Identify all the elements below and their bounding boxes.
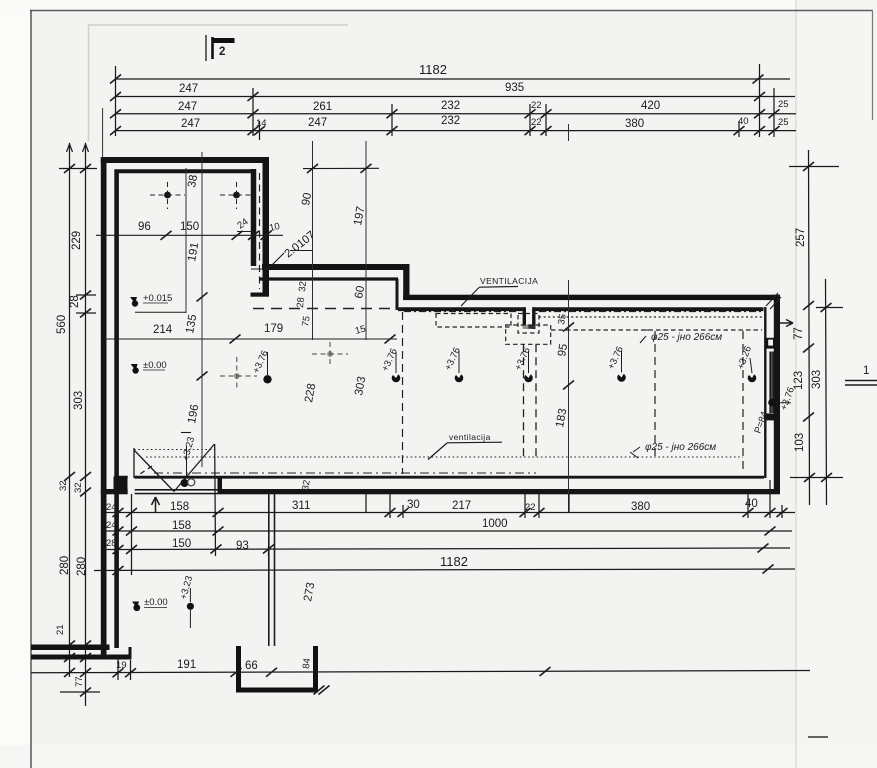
- level point 0.00 lower: [132, 597, 168, 611]
- scan fold line top-left: [88, 24, 90, 141]
- svg-text:21: 21: [55, 624, 66, 635]
- svg-text:217: 217: [452, 500, 471, 512]
- svg-text:93: 93: [236, 540, 249, 552]
- vent notch in top wall: [523, 307, 536, 329]
- dim row 247-14-247-232-22-380-40-25: [116, 130, 797, 132]
- svg-text:247: 247: [179, 83, 198, 95]
- chain verticals: [115, 66, 117, 136]
- lamps right room: [380, 347, 401, 382]
- page border top: [30, 10, 873, 12]
- row A ticks: [113, 508, 788, 517]
- svg-text:22: 22: [531, 117, 542, 128]
- dim 90 line at y168: [303, 167, 379, 169]
- stub at wall top: [59, 168, 97, 170]
- svg-text:232: 232: [441, 100, 460, 112]
- svg-text:84: 84: [301, 658, 313, 669]
- svg-text:560: 560: [56, 315, 68, 334]
- wall room A right centerline dashed: [259, 173, 261, 289]
- svg-text:1: 1: [863, 365, 869, 377]
- svg-text:303: 303: [811, 370, 823, 389]
- grey point x330: [312, 342, 348, 367]
- bottom wall outer: [101, 489, 780, 494]
- section mark 1 right edge: [845, 365, 877, 385]
- bottom chain labels: [106, 479, 758, 672]
- svg-text:35: 35: [556, 313, 569, 325]
- main top wall inner line: [398, 307, 523, 311]
- svg-text:90: 90: [300, 192, 314, 207]
- svg-text:40: 40: [738, 116, 749, 127]
- door pivot point: [181, 479, 189, 487]
- step wall horizontal outer: [262, 264, 410, 270]
- bottom-left return wall cap: [129, 647, 132, 658]
- interior grid vertical x186: [185, 168, 187, 313]
- svg-text:77: 77: [793, 327, 805, 340]
- threshold split white: [135, 491, 218, 493]
- step wall horizontal inner line: [259, 277, 398, 280]
- svg-text:+0.015: +0.015: [143, 293, 172, 304]
- svg-text:60: 60: [353, 285, 367, 300]
- tick on grid x202: [197, 293, 208, 381]
- svg-text:311: 311: [292, 500, 310, 512]
- svg-text:66: 66: [245, 660, 258, 672]
- svg-text:32: 32: [300, 479, 313, 491]
- door opening dashed line below room A wall: [253, 308, 402, 310]
- dashed vertical x655: [654, 331, 656, 460]
- wall left inner line upper: [114, 170, 119, 478]
- svg-text:VENTILACIJA: VENTILACIJA: [480, 276, 538, 286]
- BOTTOM DIMENSION CHAINS: [31, 444, 810, 680]
- svg-text:28: 28: [106, 538, 117, 549]
- svg-text:247: 247: [178, 101, 197, 113]
- svg-text:10: 10: [268, 221, 281, 234]
- svg-text:96: 96: [138, 221, 151, 233]
- svg-text:123: 123: [793, 371, 805, 390]
- row A: [103, 512, 795, 514]
- svg-text:280: 280: [59, 556, 71, 575]
- step wall vertical outer: [403, 264, 409, 300]
- section mark 2: [206, 35, 235, 61]
- svg-text:77: 77: [74, 676, 85, 687]
- window in right wall: [767, 338, 779, 421]
- svg-text:95: 95: [556, 343, 570, 358]
- right wall outer upper: [774, 295, 780, 494]
- dim row 935: [116, 96, 796, 98]
- bottom-left return wall upper bar: [31, 645, 110, 651]
- lamp room A right: [220, 182, 253, 209]
- row B: [103, 530, 792, 532]
- svg-text:380: 380: [625, 118, 644, 130]
- svg-text:25: 25: [778, 117, 789, 128]
- svg-text:280: 280: [76, 557, 88, 576]
- long bottom row: [31, 671, 810, 673]
- chain line inner: [85, 143, 87, 706]
- svg-text:±0.00: ±0.00: [143, 360, 167, 371]
- svg-text:32: 32: [297, 281, 309, 292]
- svg-text:14: 14: [256, 118, 267, 129]
- scan paper edge horizontal top-left: [88, 24, 348, 26]
- level point +3.23 lower: [178, 575, 195, 628]
- dashdot line y473: [154, 472, 536, 474]
- interior grid vertical x202: [201, 152, 203, 467]
- right chain ticks: [803, 162, 832, 482]
- chain line outer: [69, 143, 71, 677]
- svg-text:261: 261: [313, 101, 332, 113]
- level point +0.00 main room: [131, 360, 167, 374]
- svg-text:247: 247: [181, 118, 200, 130]
- door swing triangles bottom-left: [134, 444, 215, 492]
- lamp left room with label: [251, 349, 272, 384]
- column double lines to porch: [269, 494, 275, 646]
- small dim 24 near wall: [237, 231, 254, 233]
- svg-text:38: 38: [186, 174, 200, 189]
- svg-text:179: 179: [264, 323, 283, 335]
- svg-text:25: 25: [778, 99, 789, 110]
- svg-text:303: 303: [73, 391, 85, 410]
- vent duct top dashed lines: [404, 312, 762, 345]
- svg-text:935: 935: [505, 82, 524, 94]
- svg-text:2: 2: [219, 46, 225, 58]
- svg-text:257: 257: [795, 228, 807, 247]
- svg-text:247: 247: [308, 117, 327, 129]
- wall room A right end cap: [251, 293, 270, 297]
- dim row 1182: [116, 78, 791, 80]
- level point +0.015: [130, 293, 186, 312]
- wall room A right outer: [263, 157, 270, 296]
- step wall vertical inner line: [396, 279, 399, 310]
- right wall inner line upper: [764, 307, 766, 478]
- lamp room A left: [150, 182, 185, 209]
- row D ticks: [113, 565, 774, 576]
- svg-text:ventilacija: ventilacija: [449, 432, 491, 442]
- page border right: [872, 10, 874, 120]
- door gap white: [128, 475, 135, 496]
- svg-text:191: 191: [177, 659, 196, 671]
- wall left inner line lower: [114, 492, 119, 648]
- svg-text:28: 28: [69, 295, 81, 308]
- dim row 247-261-232-22-420-25: [116, 113, 797, 115]
- svg-text:32: 32: [73, 482, 84, 493]
- stub top wall level: [789, 166, 839, 168]
- porch rectangle: [239, 646, 316, 690]
- +3.23 leader at door: [186, 446, 188, 478]
- interior grid vertical x366: [365, 141, 367, 340]
- interior grid vertical x568: [568, 124, 570, 141]
- top chain labels: [178, 62, 789, 130]
- left chain arrowheads top: [67, 144, 89, 152]
- grey point mid room: [220, 357, 257, 389]
- left chain ticks: [64, 164, 91, 697]
- svg-text:232: 232: [441, 115, 460, 127]
- row C ticks: [113, 544, 769, 555]
- svg-text:φ25 - ϳно 266см: φ25 - ϳно 266см: [651, 332, 722, 343]
- LEFT DIMENSION CHAIN: [59, 143, 100, 706]
- top chain ticks: [110, 75, 780, 136]
- TOP DIMENSION CHAIN: [116, 64, 797, 140]
- room A interior dim line 96-150-24: [96, 234, 283, 236]
- bottom long row ticks: [113, 667, 551, 677]
- svg-text:22: 22: [531, 100, 542, 111]
- entry arrow right: [779, 320, 793, 327]
- porch corner ticks: [314, 686, 325, 695]
- right chain labels: [778, 228, 823, 452]
- svg-text:150: 150: [180, 221, 199, 233]
- main top wall outer: [403, 295, 780, 300]
- svg-text:158: 158: [172, 520, 191, 532]
- extension of wall line x102.6 up to dim rows: [102, 108, 104, 157]
- left chain labels (rotated): [55, 231, 88, 687]
- vertical extensions: [117, 494, 119, 575]
- svg-text:1000: 1000: [482, 518, 508, 530]
- svg-text:420: 420: [641, 100, 660, 112]
- row D 1182: [94, 569, 795, 571]
- svg-text:±0.00: ±0.00: [144, 597, 168, 608]
- svg-text:φ25 - ϳно 266см: φ25 - ϳно 266см: [645, 442, 716, 453]
- svg-text:22: 22: [525, 502, 536, 513]
- svg-text:28: 28: [295, 297, 307, 308]
- scan fold line right: [795, 0, 797, 768]
- svg-text:24: 24: [106, 520, 117, 531]
- svg-text:229: 229: [71, 231, 83, 250]
- +3.76 at window point: [776, 402, 791, 404]
- dashed vertical x743: [742, 331, 744, 472]
- chain line inner: [809, 150, 810, 505]
- svg-text:214: 214: [153, 324, 173, 336]
- dashed vertical x402.5: [402, 312, 404, 474]
- row C: [103, 548, 790, 550]
- dotted line door area y449.5: [134, 449, 215, 451]
- dim line 214-179 at y339: [102, 338, 397, 340]
- bottom right small dash: [808, 736, 828, 738]
- wall left outer: [101, 157, 107, 658]
- svg-text:1182: 1182: [440, 554, 468, 569]
- svg-text:103: 103: [794, 433, 806, 452]
- wall top (room A) inner line: [115, 169, 257, 173]
- svg-text:24: 24: [106, 502, 117, 513]
- svg-text:19: 19: [116, 660, 127, 671]
- svg-text:40: 40: [745, 498, 758, 510]
- chain line outer: [826, 279, 827, 505]
- bottom-left return wall lower bar: [31, 655, 132, 660]
- row B ticks: [113, 527, 776, 536]
- vent shaft dashed verticals: [523, 344, 525, 461]
- wall end cap left of door: [114, 477, 128, 495]
- svg-text:75: 75: [300, 315, 313, 327]
- wall top (room A) outer: [101, 157, 269, 163]
- corner hatch top-right: [766, 293, 781, 309]
- svg-text:32: 32: [58, 480, 69, 491]
- bottom wall cap at door: [218, 477, 223, 494]
- svg-text:30: 30: [407, 499, 420, 511]
- dotted floor line y457: [146, 456, 743, 458]
- svg-text:150: 150: [172, 538, 191, 550]
- interior grid vertical x312.5: [312, 141, 314, 340]
- RIGHT DIMENSION CHAIN: [789, 150, 843, 505]
- svg-text:1182: 1182: [419, 62, 447, 77]
- svg-text:158: 158: [170, 501, 189, 513]
- svg-text:380: 380: [631, 501, 650, 513]
- bottom wall inner line: [116, 476, 764, 479]
- page border left: [30, 10, 32, 768]
- entrance arrow: [152, 497, 160, 513]
- overline of +3.23: [181, 432, 191, 434]
- wall room A right inner line: [251, 169, 257, 266]
